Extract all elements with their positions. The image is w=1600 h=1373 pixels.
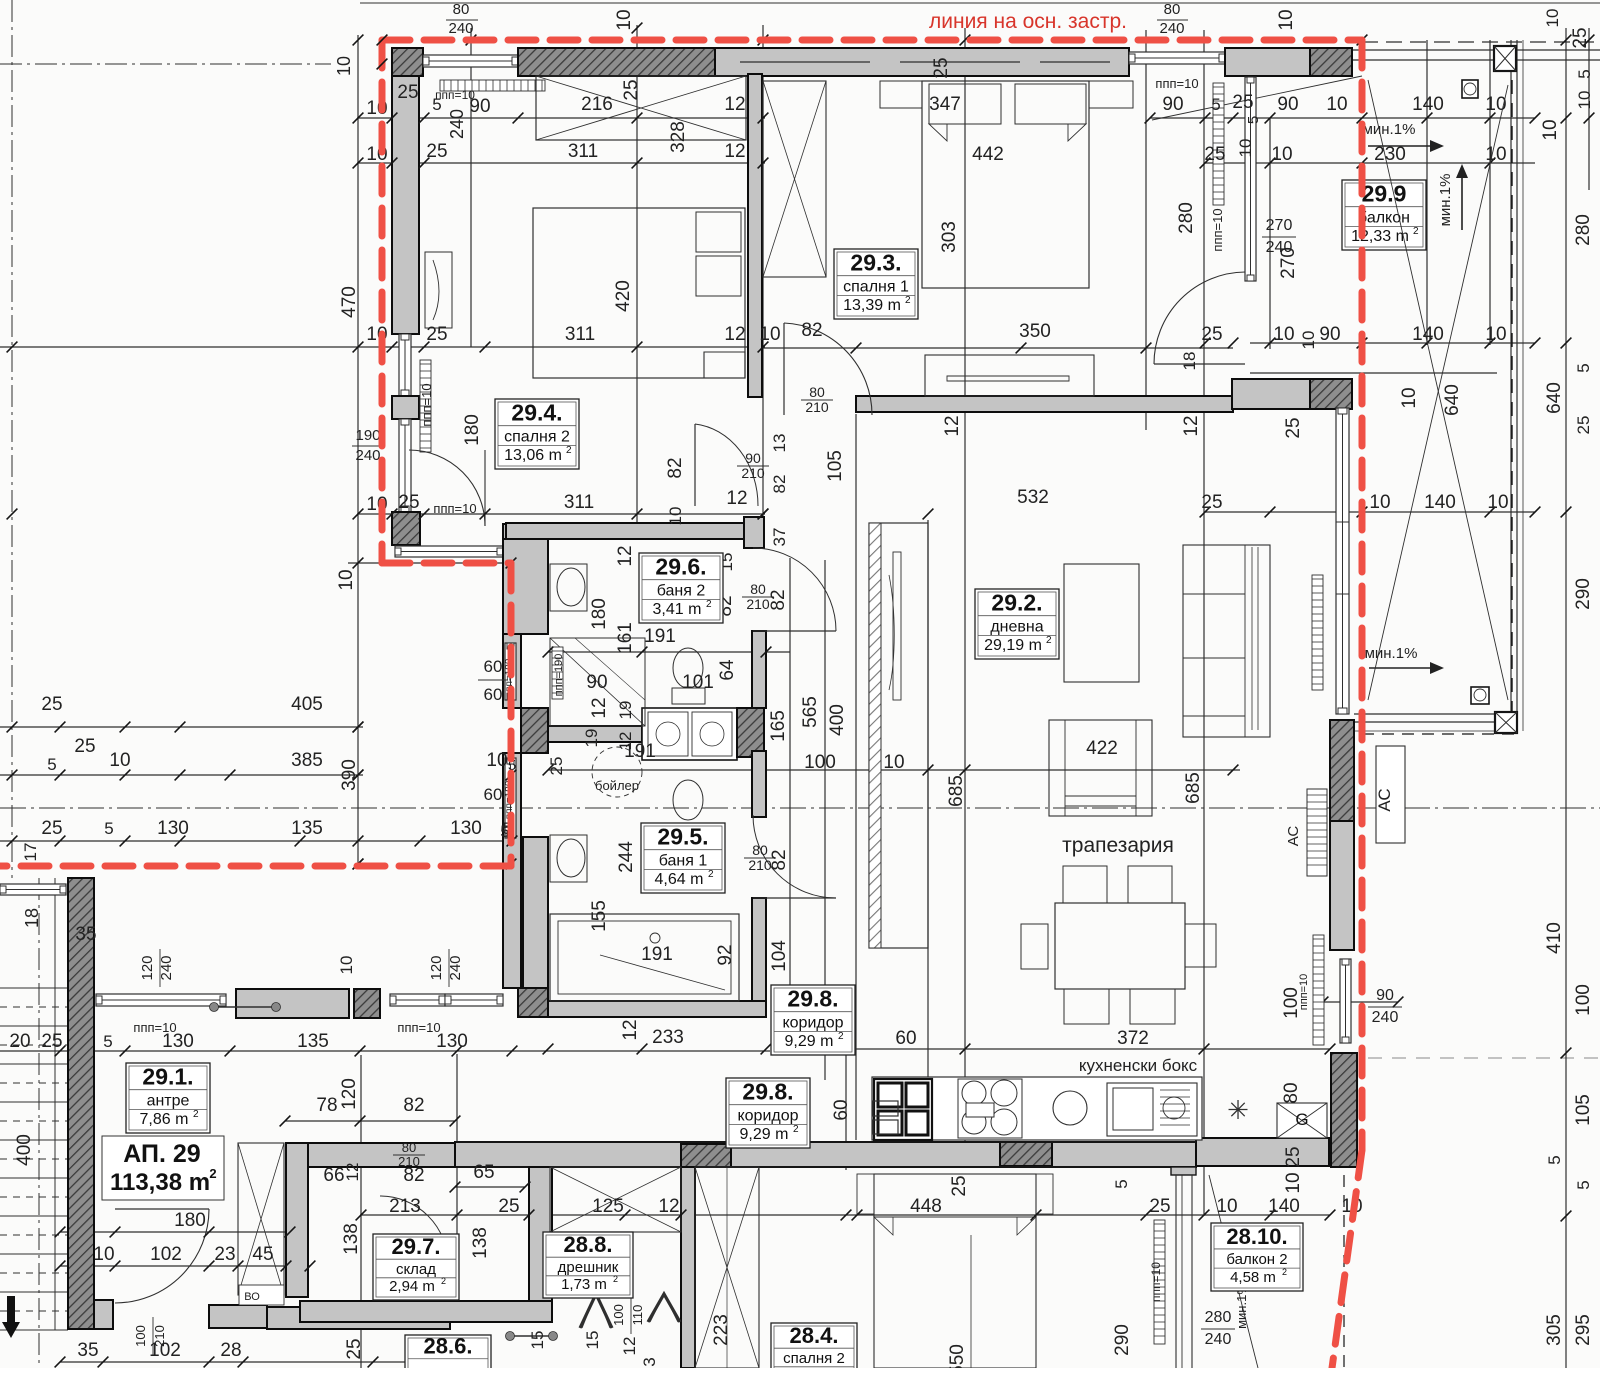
svg-text:ппп=10: ппп=10 bbox=[1298, 974, 1310, 1011]
svg-text:29.2.: 29.2. bbox=[991, 590, 1042, 616]
svg-text:12: 12 bbox=[615, 545, 636, 566]
svg-text:80: 80 bbox=[402, 1140, 416, 1155]
svg-text:2: 2 bbox=[838, 1031, 844, 1042]
svg-text:280: 280 bbox=[1176, 202, 1197, 234]
svg-text:9,29 m: 9,29 m bbox=[740, 1126, 789, 1143]
svg-text:66: 66 bbox=[323, 1165, 344, 1186]
svg-text:135: 135 bbox=[291, 818, 323, 839]
svg-text:5: 5 bbox=[1574, 1180, 1593, 1189]
svg-text:ппп=10: ппп=10 bbox=[1155, 76, 1198, 91]
svg-text:64: 64 bbox=[717, 659, 738, 681]
svg-text:29.5.: 29.5. bbox=[657, 824, 708, 850]
svg-text:2: 2 bbox=[1413, 226, 1419, 237]
svg-text:10: 10 bbox=[1543, 9, 1562, 28]
svg-text:233: 233 bbox=[652, 1027, 684, 1048]
svg-text:ппп=10: ппп=10 bbox=[433, 501, 476, 516]
svg-text:328: 328 bbox=[668, 121, 689, 153]
svg-text:25: 25 bbox=[1570, 27, 1591, 48]
svg-text:140: 140 bbox=[1412, 94, 1444, 115]
svg-text:5: 5 bbox=[1545, 1155, 1564, 1164]
svg-text:антре: антре bbox=[147, 1093, 190, 1110]
svg-text:210: 210 bbox=[805, 399, 829, 415]
svg-text:140: 140 bbox=[1268, 1196, 1300, 1217]
svg-text:240: 240 bbox=[1159, 20, 1184, 37]
svg-text:ппп=10: ппп=10 bbox=[419, 383, 434, 426]
svg-text:25: 25 bbox=[931, 57, 952, 78]
svg-text:347: 347 bbox=[929, 94, 961, 115]
svg-text:78: 78 bbox=[316, 1095, 337, 1116]
svg-text:240: 240 bbox=[158, 955, 175, 980]
svg-text:240: 240 bbox=[355, 447, 380, 464]
svg-text:565: 565 bbox=[800, 696, 821, 728]
svg-text:10: 10 bbox=[109, 750, 130, 771]
svg-text:дневна: дневна bbox=[990, 619, 1043, 636]
svg-text:25: 25 bbox=[41, 1031, 62, 1052]
svg-text:280: 280 bbox=[1573, 214, 1594, 246]
svg-text:140: 140 bbox=[1412, 324, 1444, 345]
svg-text:280: 280 bbox=[1205, 1309, 1232, 1326]
svg-text:10: 10 bbox=[1485, 324, 1506, 345]
svg-text:130: 130 bbox=[450, 818, 482, 839]
svg-text:80: 80 bbox=[809, 384, 825, 400]
svg-text:240: 240 bbox=[448, 20, 473, 37]
svg-text:180: 180 bbox=[589, 598, 610, 630]
svg-text:240: 240 bbox=[1205, 1331, 1232, 1348]
svg-text:2: 2 bbox=[708, 869, 714, 880]
svg-text:385: 385 bbox=[291, 750, 323, 771]
svg-text:10: 10 bbox=[486, 750, 507, 771]
svg-text:442: 442 bbox=[972, 144, 1004, 165]
svg-text:28.10.: 28.10. bbox=[1226, 1224, 1287, 1249]
svg-text:спалня 2: спалня 2 bbox=[504, 429, 570, 446]
svg-text:25: 25 bbox=[547, 757, 566, 776]
svg-text:640: 640 bbox=[1442, 384, 1463, 416]
svg-text:29.4.: 29.4. bbox=[511, 400, 562, 426]
svg-text:✳: ✳ bbox=[1227, 1095, 1249, 1125]
svg-text:5: 5 bbox=[1245, 116, 1262, 124]
svg-text:10: 10 bbox=[1369, 492, 1390, 513]
svg-text:25: 25 bbox=[426, 141, 447, 162]
svg-text:28: 28 bbox=[220, 1340, 241, 1361]
svg-text:135: 135 bbox=[297, 1031, 329, 1052]
svg-text:80: 80 bbox=[752, 842, 768, 858]
svg-text:25: 25 bbox=[397, 82, 418, 103]
svg-text:101: 101 bbox=[682, 672, 714, 693]
svg-text:12: 12 bbox=[620, 1019, 641, 1040]
svg-text:60: 60 bbox=[484, 685, 503, 704]
svg-text:400: 400 bbox=[14, 1134, 35, 1166]
svg-text:100: 100 bbox=[804, 752, 836, 773]
svg-text:372: 372 bbox=[1117, 1028, 1149, 1049]
svg-text:18: 18 bbox=[22, 908, 42, 928]
svg-text:102: 102 bbox=[149, 1340, 181, 1361]
svg-text:191: 191 bbox=[644, 626, 676, 647]
svg-text:25: 25 bbox=[398, 492, 419, 513]
svg-text:161: 161 bbox=[615, 622, 636, 654]
svg-text:ВО: ВО bbox=[244, 1291, 260, 1303]
svg-text:305: 305 bbox=[1544, 1314, 1565, 1346]
svg-text:10: 10 bbox=[1216, 1196, 1237, 1217]
svg-text:110: 110 bbox=[630, 1305, 645, 1326]
svg-text:448: 448 bbox=[910, 1196, 942, 1217]
svg-text:244: 244 bbox=[616, 841, 637, 873]
svg-text:25: 25 bbox=[74, 736, 95, 757]
svg-text:25: 25 bbox=[1204, 144, 1225, 165]
svg-text:35: 35 bbox=[77, 1340, 98, 1361]
svg-text:29.3.: 29.3. bbox=[850, 250, 901, 276]
svg-text:7,86 m: 7,86 m bbox=[140, 1111, 189, 1128]
svg-text:5: 5 bbox=[104, 819, 113, 838]
svg-text:ппп=10: ппп=10 bbox=[1210, 208, 1225, 251]
svg-text:2: 2 bbox=[613, 1274, 618, 1284]
svg-text:17: 17 bbox=[21, 843, 40, 862]
svg-text:102: 102 bbox=[150, 1244, 182, 1265]
svg-text:4,58 m: 4,58 m bbox=[1230, 1269, 1276, 1286]
svg-text:ппп=10: ппп=10 bbox=[133, 1020, 176, 1035]
svg-text:25: 25 bbox=[498, 1196, 519, 1217]
svg-text:104: 104 bbox=[769, 940, 790, 972]
svg-text:13,06 m: 13,06 m bbox=[504, 447, 562, 464]
svg-text:180: 180 bbox=[462, 414, 483, 446]
svg-text:125: 125 bbox=[592, 1196, 624, 1217]
svg-text:60: 60 bbox=[484, 785, 503, 804]
svg-text:28.4.: 28.4. bbox=[790, 1323, 839, 1348]
svg-text:18: 18 bbox=[1180, 352, 1199, 371]
svg-text:240: 240 bbox=[447, 955, 464, 980]
svg-text:10: 10 bbox=[759, 324, 780, 345]
svg-text:113,38 m: 113,38 m bbox=[110, 1169, 210, 1196]
svg-text:29.7.: 29.7. bbox=[392, 1234, 441, 1259]
svg-text:82: 82 bbox=[801, 320, 822, 341]
svg-text:550: 550 bbox=[947, 1344, 968, 1368]
svg-text:685: 685 bbox=[1183, 772, 1204, 804]
svg-text:130: 130 bbox=[157, 818, 189, 839]
svg-text:80: 80 bbox=[750, 581, 766, 597]
svg-text:640: 640 bbox=[1544, 382, 1565, 414]
svg-text:60: 60 bbox=[484, 657, 503, 676]
svg-text:10: 10 bbox=[666, 507, 685, 526]
svg-text:бойлер: бойлер bbox=[595, 778, 639, 793]
svg-text:311: 311 bbox=[568, 141, 598, 162]
svg-text:балкон: балкон bbox=[1358, 210, 1410, 227]
svg-text:кухненски бокс: кухненски бокс bbox=[1079, 1056, 1198, 1075]
svg-text:230: 230 bbox=[1374, 144, 1406, 165]
svg-text:10: 10 bbox=[337, 956, 356, 975]
svg-text:350: 350 bbox=[1019, 321, 1051, 342]
svg-text:140: 140 bbox=[1424, 492, 1456, 513]
svg-text:210: 210 bbox=[746, 596, 770, 612]
svg-text:5: 5 bbox=[432, 95, 441, 114]
svg-text:270: 270 bbox=[1266, 217, 1293, 234]
svg-text:3,41 m: 3,41 m bbox=[653, 601, 702, 618]
svg-text:5: 5 bbox=[1574, 363, 1593, 372]
svg-text:240: 240 bbox=[1372, 1009, 1399, 1026]
svg-text:19: 19 bbox=[616, 701, 635, 720]
svg-text:82: 82 bbox=[770, 475, 789, 494]
svg-text:25: 25 bbox=[41, 694, 62, 715]
svg-text:12: 12 bbox=[1181, 415, 1202, 436]
svg-text:105: 105 bbox=[825, 450, 846, 482]
svg-text:10: 10 bbox=[1487, 492, 1508, 513]
svg-text:82: 82 bbox=[403, 1095, 424, 1116]
svg-text:25: 25 bbox=[1574, 416, 1593, 435]
svg-text:82: 82 bbox=[769, 849, 790, 870]
svg-text:2: 2 bbox=[566, 445, 572, 456]
svg-text:25: 25 bbox=[1283, 417, 1304, 438]
svg-text:223: 223 bbox=[711, 1314, 732, 1346]
svg-text:5: 5 bbox=[1575, 69, 1594, 78]
svg-text:10: 10 bbox=[1399, 387, 1420, 408]
svg-text:1,73 m: 1,73 m bbox=[561, 1276, 607, 1293]
svg-text:2: 2 bbox=[706, 599, 712, 610]
svg-text:470: 470 bbox=[339, 286, 360, 318]
svg-text:92: 92 bbox=[715, 944, 736, 965]
svg-text:25: 25 bbox=[1283, 1146, 1304, 1167]
svg-text:190: 190 bbox=[355, 427, 380, 444]
svg-text:405: 405 bbox=[291, 694, 323, 715]
svg-text:25: 25 bbox=[426, 324, 447, 345]
svg-text:390: 390 bbox=[339, 759, 360, 791]
svg-text:105: 105 bbox=[1573, 1094, 1594, 1126]
svg-text:10: 10 bbox=[1485, 144, 1506, 165]
svg-text:303: 303 bbox=[939, 221, 960, 253]
svg-text:180: 180 bbox=[174, 1210, 206, 1231]
svg-text:191: 191 bbox=[641, 944, 673, 965]
svg-text:60: 60 bbox=[831, 1099, 852, 1120]
svg-text:10: 10 bbox=[614, 9, 635, 30]
svg-text:240: 240 bbox=[447, 109, 467, 139]
svg-text:15: 15 bbox=[528, 1331, 547, 1350]
svg-text:90: 90 bbox=[1277, 94, 1298, 115]
svg-text:90: 90 bbox=[586, 672, 607, 693]
svg-text:25: 25 bbox=[1201, 324, 1222, 345]
svg-text:10: 10 bbox=[1540, 119, 1561, 140]
svg-text:35: 35 bbox=[75, 924, 96, 945]
svg-text:138: 138 bbox=[470, 1227, 491, 1259]
svg-text:210: 210 bbox=[741, 465, 765, 481]
svg-text:25: 25 bbox=[1149, 1196, 1170, 1217]
svg-text:5: 5 bbox=[47, 755, 56, 774]
svg-text:2: 2 bbox=[441, 1276, 446, 1286]
svg-text:коридор: коридор bbox=[737, 1108, 798, 1125]
svg-text:90: 90 bbox=[745, 450, 761, 466]
svg-text:19: 19 bbox=[582, 729, 601, 748]
svg-text:2,94 m: 2,94 m bbox=[389, 1278, 435, 1295]
svg-text:400: 400 bbox=[827, 704, 848, 736]
svg-text:155: 155 bbox=[589, 900, 610, 932]
svg-text:10: 10 bbox=[1326, 94, 1347, 115]
svg-text:25: 25 bbox=[949, 1175, 970, 1196]
svg-text:10: 10 bbox=[1273, 324, 1294, 345]
svg-text:90: 90 bbox=[1162, 94, 1183, 115]
svg-text:12: 12 bbox=[620, 1337, 639, 1356]
svg-text:2: 2 bbox=[1282, 1267, 1287, 1277]
svg-text:295: 295 bbox=[1573, 1314, 1594, 1346]
svg-text:мин.1%: мин.1% bbox=[1363, 121, 1416, 138]
svg-text:5: 5 bbox=[1112, 1179, 1131, 1188]
svg-text:10: 10 bbox=[1271, 144, 1292, 165]
svg-text:90: 90 bbox=[1319, 324, 1340, 345]
svg-text:120: 120 bbox=[139, 955, 156, 980]
svg-text:90: 90 bbox=[1376, 987, 1394, 1004]
svg-text:13: 13 bbox=[770, 434, 789, 453]
svg-text:ппп=190: ппп=190 bbox=[553, 654, 565, 697]
svg-text:45: 45 bbox=[252, 1244, 273, 1265]
svg-text:532: 532 bbox=[1017, 487, 1049, 508]
svg-text:28.6.: 28.6. bbox=[424, 1334, 473, 1359]
svg-text:5: 5 bbox=[1211, 95, 1220, 114]
svg-text:80: 80 bbox=[1281, 1082, 1302, 1103]
svg-text:2: 2 bbox=[1046, 635, 1052, 646]
svg-text:АС: АС bbox=[1375, 788, 1394, 811]
svg-text:270: 270 bbox=[1278, 247, 1299, 279]
svg-text:спалня 2: спалня 2 bbox=[783, 1350, 845, 1367]
svg-text:10: 10 bbox=[1299, 331, 1318, 350]
svg-text:29.8.: 29.8. bbox=[787, 986, 838, 1012]
svg-text:29.6.: 29.6. bbox=[655, 554, 706, 580]
svg-text:3: 3 bbox=[640, 1357, 659, 1366]
svg-text:23: 23 bbox=[214, 1244, 235, 1265]
svg-text:дрешник: дрешник bbox=[558, 1259, 619, 1276]
svg-text:G: G bbox=[1295, 1110, 1308, 1129]
svg-text:290: 290 bbox=[1112, 1324, 1133, 1356]
svg-text:130: 130 bbox=[436, 1031, 468, 1052]
svg-text:29.9: 29.9 bbox=[1362, 181, 1407, 207]
svg-text:2: 2 bbox=[193, 1109, 199, 1120]
svg-text:82: 82 bbox=[768, 589, 789, 610]
svg-text:65: 65 bbox=[473, 1162, 494, 1183]
svg-text:25: 25 bbox=[344, 1338, 365, 1359]
svg-text:216: 216 bbox=[581, 94, 613, 115]
svg-text:191: 191 bbox=[624, 741, 656, 762]
svg-text:10: 10 bbox=[1575, 91, 1594, 110]
svg-text:баня 2: баня 2 bbox=[657, 583, 706, 600]
svg-text:165: 165 bbox=[768, 710, 789, 742]
svg-text:37: 37 bbox=[770, 528, 789, 547]
svg-text:2: 2 bbox=[905, 295, 911, 306]
svg-text:12: 12 bbox=[343, 1163, 362, 1182]
svg-text:15: 15 bbox=[583, 1331, 602, 1350]
svg-text:213: 213 bbox=[389, 1196, 421, 1217]
svg-text:25: 25 bbox=[621, 79, 642, 100]
svg-text:мин.1%: мин.1% bbox=[1365, 645, 1418, 662]
svg-text:28.8.: 28.8. bbox=[564, 1232, 613, 1257]
svg-text:склад: склад bbox=[396, 1261, 436, 1278]
svg-text:10: 10 bbox=[334, 56, 354, 76]
svg-text:ппп=10: ппп=10 bbox=[1149, 1262, 1163, 1302]
svg-text:12: 12 bbox=[724, 141, 745, 162]
svg-text:2: 2 bbox=[793, 1124, 799, 1135]
svg-text:10: 10 bbox=[336, 569, 357, 590]
svg-text:балкон 2: балкон 2 bbox=[1226, 1251, 1287, 1268]
svg-text:4,64 m: 4,64 m bbox=[655, 871, 704, 888]
svg-text:100: 100 bbox=[1573, 984, 1594, 1016]
svg-text:290: 290 bbox=[1573, 578, 1594, 610]
svg-text:12: 12 bbox=[658, 1196, 679, 1217]
svg-text:12: 12 bbox=[726, 488, 747, 509]
svg-text:29.1.: 29.1. bbox=[142, 1064, 193, 1090]
svg-text:линия на осн. застр.: линия на осн. застр. bbox=[929, 10, 1127, 33]
svg-text:25: 25 bbox=[1201, 492, 1222, 513]
svg-text:13,39 m: 13,39 m bbox=[843, 297, 901, 314]
svg-text:422: 422 bbox=[1086, 738, 1118, 759]
svg-text:120: 120 bbox=[428, 955, 445, 980]
svg-text:311: 311 bbox=[565, 324, 595, 345]
svg-text:2: 2 bbox=[209, 1166, 216, 1181]
svg-text:100: 100 bbox=[133, 1325, 148, 1347]
svg-text:10: 10 bbox=[883, 752, 904, 773]
svg-text:12: 12 bbox=[942, 415, 963, 436]
svg-text:9,29 m: 9,29 m bbox=[785, 1033, 834, 1050]
svg-text:12: 12 bbox=[724, 324, 745, 345]
svg-text:10: 10 bbox=[1276, 9, 1297, 30]
svg-text:трапезария: трапезария bbox=[1062, 834, 1174, 857]
svg-text:25: 25 bbox=[41, 818, 62, 839]
svg-text:мин.1%: мин.1% bbox=[1437, 174, 1454, 227]
svg-text:12: 12 bbox=[724, 94, 745, 115]
svg-text:100: 100 bbox=[611, 1304, 626, 1326]
svg-text:АП. 29: АП. 29 bbox=[123, 1140, 200, 1168]
svg-text:410: 410 bbox=[1544, 922, 1565, 954]
svg-text:коридор: коридор bbox=[782, 1015, 843, 1032]
svg-text:спалня 1: спалня 1 bbox=[843, 279, 909, 296]
svg-text:5: 5 bbox=[103, 1032, 112, 1051]
svg-text:10: 10 bbox=[1236, 139, 1255, 158]
svg-text:10: 10 bbox=[93, 1244, 114, 1265]
svg-text:685: 685 bbox=[946, 775, 967, 807]
svg-text:420: 420 bbox=[613, 280, 634, 312]
svg-text:25: 25 bbox=[1232, 92, 1253, 113]
svg-text:82: 82 bbox=[665, 457, 686, 478]
svg-text:29,19 m: 29,19 m bbox=[984, 637, 1042, 654]
svg-text:210: 210 bbox=[398, 1154, 420, 1169]
svg-text:60: 60 bbox=[895, 1028, 916, 1049]
svg-text:120: 120 bbox=[339, 1078, 360, 1110]
svg-text:138: 138 bbox=[341, 1223, 362, 1255]
svg-text:29.8.: 29.8. bbox=[742, 1079, 793, 1105]
svg-text:311: 311 bbox=[564, 492, 594, 513]
svg-text:80: 80 bbox=[1164, 1, 1181, 18]
svg-text:10: 10 bbox=[1283, 1172, 1304, 1193]
svg-text:90: 90 bbox=[469, 96, 490, 117]
svg-text:АС: АС bbox=[1285, 826, 1302, 847]
svg-text:80: 80 bbox=[453, 1, 470, 18]
svg-text:20: 20 bbox=[9, 1031, 30, 1052]
svg-text:ппп=10: ппп=10 bbox=[397, 1020, 440, 1035]
svg-text:баня 1: баня 1 bbox=[659, 853, 708, 870]
svg-text:12: 12 bbox=[589, 697, 610, 718]
